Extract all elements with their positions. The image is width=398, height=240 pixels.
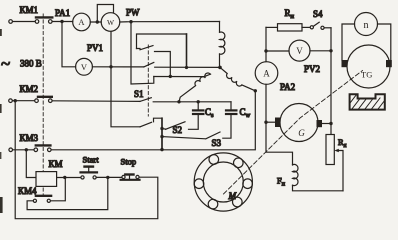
wire PW drop to aux feed: [131, 22, 154, 84]
ammeter PA2: [255, 62, 278, 85]
switch S3: [162, 132, 220, 139]
svg-text:S2: S2: [173, 125, 183, 135]
svg-text:КМ1: КМ1: [20, 5, 39, 15]
node junction G right brush: [329, 122, 332, 125]
switch S1 pole 2: [144, 62, 220, 67]
node junction KM coil tap: [25, 148, 28, 151]
node junction G left brush: [264, 121, 267, 124]
switch S1 pole 3: [140, 98, 231, 102]
svg-text:PA2: PA2: [280, 82, 295, 92]
wire aux winding feed: [154, 74, 211, 77]
switch S1 pole 4: [140, 118, 162, 149]
svg-text:A: A: [78, 17, 85, 27]
tachometer n: [355, 13, 378, 36]
inductor field winding Fp: [293, 164, 344, 190]
svg-text:ТG: ТG: [361, 70, 372, 80]
motor M rotor inner: [203, 162, 243, 202]
svg-text:PW: PW: [126, 8, 140, 18]
wire n to TG right: [378, 24, 391, 61]
contactor contact KM2: [35, 97, 52, 103]
contactor contact KM1: [35, 17, 52, 23]
switch S1 bridge wire: [137, 34, 187, 49]
wire KM to Start: [57, 177, 81, 179]
svg-text:~: ~: [1, 54, 10, 73]
capacitor Cs: [189, 102, 204, 130]
svg-text:КМ4: КМ4: [18, 186, 37, 196]
node junction hold branch: [106, 176, 109, 179]
svg-text:М: М: [228, 191, 237, 201]
switch S4: [310, 22, 331, 29]
switch S2: [162, 122, 185, 130]
svg-text:V: V: [296, 46, 303, 56]
node junction aux winding: [169, 75, 172, 78]
ammeter PA1: [73, 13, 91, 31]
tachogenerator TG: [347, 45, 390, 88]
node phase C source terminal: [9, 148, 13, 152]
svg-text:Start: Start: [83, 155, 100, 165]
wattmeter PW meter: [101, 13, 120, 32]
svg-text:G: G: [298, 128, 305, 138]
coil KM contactor: [36, 172, 57, 187]
wire S2 column thick: [161, 118, 163, 149]
node junction S3 tap: [160, 135, 163, 138]
svg-text:КМ: КМ: [49, 159, 63, 169]
brake shoe hatched block: [340, 90, 398, 132]
brush G right: [317, 120, 323, 127]
node junction PV2 right: [329, 49, 332, 52]
voltmeter PV2: [266, 40, 331, 61]
node junction PV2 tap: [264, 49, 267, 52]
svg-text:PV1: PV1: [87, 43, 103, 53]
svg-text:Rн: Rн: [285, 8, 295, 20]
node phase B source terminal: [9, 99, 13, 103]
motor M stator outer: [194, 153, 252, 211]
brush TG left: [342, 60, 348, 67]
wire KM4 riser: [50, 177, 65, 200]
inductor aux winding: [179, 73, 210, 102]
wire PV1 branch: [62, 22, 144, 67]
wire phase C row: [13, 91, 256, 150]
node junction control tap: [14, 99, 17, 102]
node junction PV1 tap: [60, 20, 63, 23]
node junction aux-rail: [177, 100, 180, 103]
dashed shaft line: [224, 71, 363, 195]
scan artifact marks left edge: [0, 29, 2, 36]
wire load branch vertical: [266, 27, 293, 165]
capacitor Cw: [223, 102, 237, 138]
wire phase A row: [12, 21, 219, 24]
node junction S2 tap: [160, 127, 163, 130]
wire KM coil feed: [26, 150, 36, 178]
svg-text:W: W: [107, 18, 115, 27]
svg-text:КМ3: КМ3: [20, 133, 39, 143]
dashed link KM contactor: [42, 14, 44, 195]
wire Start to Stop: [96, 176, 122, 178]
svg-text:A: A: [263, 69, 270, 79]
inductor main winding L2: [220, 67, 255, 90]
rheostat Rya: [326, 135, 334, 165]
button Start: [81, 167, 98, 179]
dashed link S1: [147, 45, 149, 116]
node junction KM4 riser: [63, 176, 66, 179]
node junction A-W: [96, 20, 99, 23]
wire W voltage-coil drop: [111, 31, 140, 127]
generator G: [280, 104, 318, 142]
node junction top rail: [129, 20, 132, 23]
button Stop: [121, 175, 140, 180]
wire G left brush: [266, 121, 275, 123]
switch S1 pole 1: [137, 46, 171, 77]
voltmeter PV1: [76, 58, 93, 75]
node phase A source terminal: [9, 20, 13, 24]
node junction winding-run: [254, 89, 257, 92]
svg-text:S3: S3: [212, 138, 222, 148]
node junction S1 bridge: [185, 66, 188, 69]
svg-text:Cw: Cw: [240, 107, 251, 119]
wire G right brush: [322, 123, 331, 125]
svg-text:PV2: PV2: [304, 64, 320, 74]
wire rheostat wiper arrow: [337, 151, 343, 191]
svg-text:Stop: Stop: [121, 157, 137, 167]
brush TG right: [386, 60, 392, 67]
svg-text:PA1: PA1: [55, 8, 70, 18]
svg-text:Cs: Cs: [205, 107, 214, 119]
svg-text:n: n: [364, 20, 369, 31]
wire S4 down rail: [330, 28, 332, 135]
svg-text:Rя: Rя: [338, 137, 347, 149]
contactor contact KM3: [34, 145, 51, 151]
svg-text:380 В: 380 В: [20, 59, 42, 69]
wire KM4 hold loop: [27, 177, 108, 209]
node junction Cs-rail: [197, 100, 200, 103]
node junction PV1-W: [109, 65, 112, 68]
wire phase B row: [12, 100, 140, 103]
wire wattmeter current-coil loop: [97, 5, 113, 23]
svg-text:S4: S4: [313, 9, 323, 19]
resistor Rn: [266, 24, 310, 31]
svg-text:Fп: Fп: [277, 176, 286, 188]
contactor contact KM4: [33, 196, 51, 203]
svg-text:V: V: [81, 62, 88, 72]
wire control left drop: [15, 101, 158, 219]
node junction S2 column: [160, 148, 163, 151]
brush G left: [275, 118, 281, 128]
wire n to TG left: [342, 24, 355, 61]
inductor main winding L1: [220, 22, 225, 68]
node junction motor star point: [218, 66, 222, 70]
svg-text:S1: S1: [134, 89, 144, 99]
motor M slot circles: [194, 155, 252, 209]
svg-text:КМ2: КМ2: [20, 84, 39, 94]
